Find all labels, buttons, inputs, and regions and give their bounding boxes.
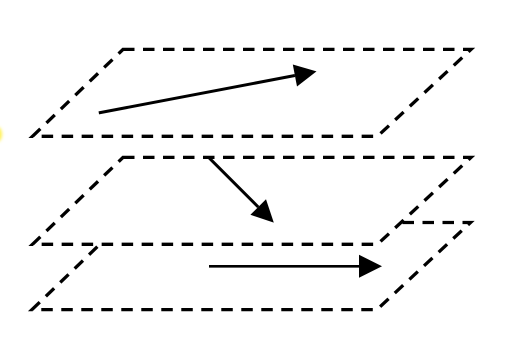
middle plane (white-filled to occlude bottom plane, dashed outline) (33, 157, 472, 244)
top plane (dashed parallelogram) (33, 49, 472, 136)
vector arrow v2 (middle plane, pointing down-right) (209, 158, 274, 223)
vector arrow v3 (bottom plane, pointing right) (209, 255, 382, 278)
yellow highlight mark (left edge) (0, 127, 2, 142)
bottom plane (dashed parallelogram, partly hidden behind middle plane) (32, 223, 471, 310)
vector arrow v1 (top plane, pointing up-right) (99, 65, 317, 113)
